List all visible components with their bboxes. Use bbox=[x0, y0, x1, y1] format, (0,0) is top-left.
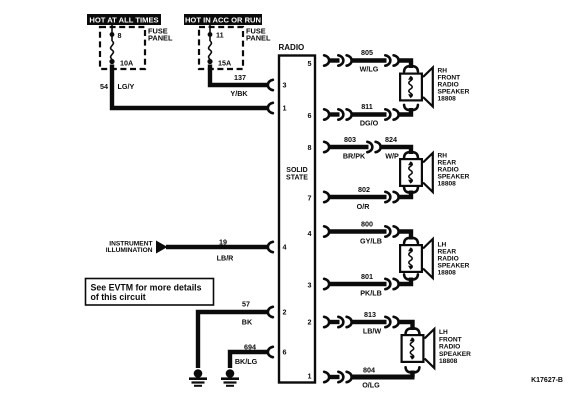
row7: connector at pin 2 bbox=[324, 317, 329, 327]
LH rear radio speaker bbox=[400, 239, 433, 278]
row1: connector at pin 5 bbox=[324, 55, 329, 65]
connector at radio pin 1 bbox=[268, 103, 273, 113]
row2: connector at pin 6 bbox=[324, 109, 329, 119]
fuse F1 element bbox=[111, 41, 114, 59]
svg-text:HOT AT ALL TIMES: HOT AT ALL TIMES bbox=[89, 16, 158, 25]
connector at radio pin 2 bbox=[268, 307, 273, 317]
fuse panel 2 dashed box bbox=[199, 27, 243, 69]
svg-text:HOT IN ACC OR RUN: HOT IN ACC OR RUN bbox=[185, 16, 261, 25]
row1 stub wire bbox=[329, 58, 340, 62]
svg-text:FUSEPANEL: FUSEPANEL bbox=[246, 27, 271, 43]
svg-text:1: 1 bbox=[283, 104, 287, 113]
wire 137 Y/BK bbox=[210, 65, 269, 86]
wire 803 BR/PK bbox=[329, 145, 369, 149]
svg-text:RADIO: RADIO bbox=[279, 43, 305, 52]
wire 824 W/P bbox=[380, 147, 411, 154]
svg-text:57: 57 bbox=[242, 300, 250, 309]
svg-text:804: 804 bbox=[363, 365, 375, 374]
fuse F2 element bbox=[209, 41, 212, 59]
svg-text:INSTRUMENTILLUMINATION: INSTRUMENTILLUMINATION bbox=[106, 241, 153, 255]
wire 57 BK bbox=[198, 312, 269, 368]
wire 800 GY/LB bbox=[329, 229, 387, 233]
speaker terminal claw (LH front -) bbox=[406, 367, 420, 372]
row8 terminal lead bbox=[410, 371, 414, 378]
row1 terminal lead bbox=[398, 61, 411, 69]
svg-text:8: 8 bbox=[118, 31, 122, 40]
row1 inline connector pair bbox=[338, 55, 351, 65]
speaker terminal claw (LH front +) bbox=[406, 328, 420, 333]
row2 speaker-side connector pair bbox=[385, 109, 398, 119]
svg-text:BK/LG: BK/LG bbox=[235, 357, 258, 366]
row5 speaker-side connector pair bbox=[385, 226, 398, 236]
ground G1 bbox=[189, 369, 207, 387]
svg-text:19: 19 bbox=[219, 238, 227, 247]
svg-text:6: 6 bbox=[308, 111, 312, 120]
wire 801 PK/LB bbox=[329, 282, 387, 286]
speaker terminal claw (RH rear +) bbox=[404, 152, 418, 157]
svg-text:801: 801 bbox=[361, 272, 373, 281]
svg-text:805: 805 bbox=[361, 48, 373, 57]
svg-text:3: 3 bbox=[308, 281, 312, 290]
row8 stub wire bbox=[329, 375, 340, 379]
wire 804 O/LG bbox=[351, 375, 415, 380]
fuse F1 top terminal bbox=[110, 32, 115, 37]
row3: connector at pin 8 bbox=[324, 142, 329, 152]
svg-text:RHREARRADIOSPEAKER18808: RHREARRADIOSPEAKER18808 bbox=[438, 153, 470, 188]
row7 inline connector pair bbox=[338, 317, 351, 327]
speaker terminal claw (RH front +) bbox=[404, 66, 418, 71]
svg-text:15A: 15A bbox=[218, 59, 231, 68]
svg-text:813: 813 bbox=[364, 310, 376, 319]
svg-text:4: 4 bbox=[308, 229, 312, 238]
svg-text:694: 694 bbox=[244, 342, 256, 351]
svg-text:LHREARRADIOSPEAKER18808: LHREARRADIOSPEAKER18808 bbox=[438, 242, 470, 277]
svg-text:LB/R: LB/R bbox=[217, 254, 235, 263]
svg-text:2: 2 bbox=[308, 318, 312, 327]
row6 speaker-side connector pair bbox=[385, 279, 398, 289]
wire 19 LB/R bbox=[166, 245, 269, 249]
svg-text:K17627-B: K17627-B bbox=[531, 377, 563, 384]
svg-text:LHFRONTRADIOSPEAKER18808: LHFRONTRADIOSPEAKER18808 bbox=[439, 329, 471, 365]
svg-text:Y/BK: Y/BK bbox=[230, 89, 248, 98]
row8 inline connector pair bbox=[338, 372, 351, 382]
row6 terminal lead bbox=[398, 278, 411, 285]
svg-text:802: 802 bbox=[358, 185, 370, 194]
row3 inline connector pair bbox=[367, 142, 380, 152]
wire 813 LB/W bbox=[351, 320, 387, 324]
wire 802 O/R bbox=[329, 195, 387, 199]
svg-text:O/LG: O/LG bbox=[362, 381, 380, 390]
svg-text:803: 803 bbox=[344, 135, 356, 144]
svg-text:1: 1 bbox=[308, 372, 312, 381]
svg-text:W/LG: W/LG bbox=[360, 65, 379, 74]
RH front radio speaker bbox=[400, 68, 433, 107]
svg-text:LB/W: LB/W bbox=[363, 327, 382, 336]
svg-text:LG/Y: LG/Y bbox=[118, 82, 135, 91]
svg-text:6: 6 bbox=[283, 348, 287, 357]
svg-text:BK: BK bbox=[242, 318, 253, 327]
fuse F1 feed wire bbox=[111, 25, 113, 41]
svg-text:137: 137 bbox=[234, 73, 246, 82]
fuse F2 bottom terminal bbox=[207, 59, 212, 64]
row1 speaker-side connector pair bbox=[385, 55, 398, 65]
speaker terminal claw (LH rear -) bbox=[404, 274, 418, 279]
RH rear radio speaker bbox=[400, 153, 433, 192]
row2 stub wire bbox=[329, 112, 340, 116]
see EVTM note box bbox=[86, 279, 214, 306]
row4 terminal lead bbox=[398, 191, 411, 198]
LH front radio speaker bbox=[402, 329, 435, 368]
fuse F1 bottom terminal bbox=[109, 59, 114, 64]
svg-text:3: 3 bbox=[283, 81, 287, 90]
svg-text:O/R: O/R bbox=[357, 202, 371, 211]
row7 stub wire bbox=[329, 320, 340, 324]
row6: connector at pin 3 bbox=[324, 279, 329, 289]
svg-text:BR/PK: BR/PK bbox=[343, 152, 366, 161]
speaker terminal claw (RH rear -) bbox=[404, 187, 418, 192]
svg-text:8: 8 bbox=[308, 143, 312, 152]
svg-text:SOLIDSTATE: SOLIDSTATE bbox=[286, 167, 308, 181]
row2 terminal lead bbox=[398, 108, 411, 115]
svg-text:FUSEPANEL: FUSEPANEL bbox=[148, 27, 173, 43]
svg-text:7: 7 bbox=[308, 194, 312, 203]
row8: connector at pin 1 bbox=[324, 372, 329, 382]
svg-text:2: 2 bbox=[283, 308, 287, 317]
row4: connector at pin 7 bbox=[324, 192, 329, 202]
radio unit box U1 bbox=[279, 56, 315, 383]
svg-text:4: 4 bbox=[283, 243, 287, 252]
svg-text:PK/LB: PK/LB bbox=[360, 289, 382, 298]
svg-text:54: 54 bbox=[100, 82, 108, 91]
svg-text:811: 811 bbox=[361, 102, 373, 111]
hot-at-all-times header box bbox=[87, 14, 161, 25]
fuse panel 1 dashed box bbox=[100, 27, 145, 69]
wire 694 BK/LG bbox=[230, 352, 269, 368]
svg-text:824: 824 bbox=[385, 135, 397, 144]
row2 inline connector pair bbox=[338, 109, 351, 119]
row7 terminal lead bbox=[398, 322, 413, 330]
wire 54 LG/Y bbox=[112, 65, 269, 109]
ground G2 bbox=[221, 369, 239, 387]
row7 speaker-side connector pair bbox=[385, 317, 398, 327]
row4 speaker-side connector pair bbox=[385, 192, 398, 202]
svg-text:10A: 10A bbox=[120, 59, 133, 68]
fuse F2 top terminal bbox=[208, 32, 213, 37]
fuse F2 feed wire bbox=[209, 25, 211, 41]
hot-in-acc-or-run header box bbox=[184, 14, 262, 25]
connector at radio pin 4 bbox=[268, 242, 273, 252]
row5: connector at pin 4 bbox=[324, 226, 329, 236]
svg-text:800: 800 bbox=[361, 220, 373, 229]
svg-text:DG/O: DG/O bbox=[360, 119, 379, 128]
instrument illumination arrow bbox=[156, 241, 168, 254]
speaker terminal claw (RH front -) bbox=[404, 105, 418, 110]
svg-text:of this circuit: of this circuit bbox=[91, 292, 146, 302]
svg-text:GY/LB: GY/LB bbox=[360, 237, 382, 246]
connector at radio pin 3 bbox=[268, 80, 273, 90]
svg-text:RHFRONTRADIOSPEAKER18808: RHFRONTRADIOSPEAKER18808 bbox=[438, 68, 470, 103]
svg-text:W/P: W/P bbox=[385, 152, 399, 161]
wire 805 W/LG bbox=[351, 58, 387, 62]
wire 811 DG/O bbox=[351, 112, 387, 116]
row5 terminal lead bbox=[398, 232, 411, 240]
connector at radio pin 6 bbox=[268, 347, 273, 357]
svg-text:11: 11 bbox=[216, 31, 224, 40]
svg-text:5: 5 bbox=[308, 59, 312, 68]
speaker terminal claw (LH rear +) bbox=[404, 238, 418, 243]
